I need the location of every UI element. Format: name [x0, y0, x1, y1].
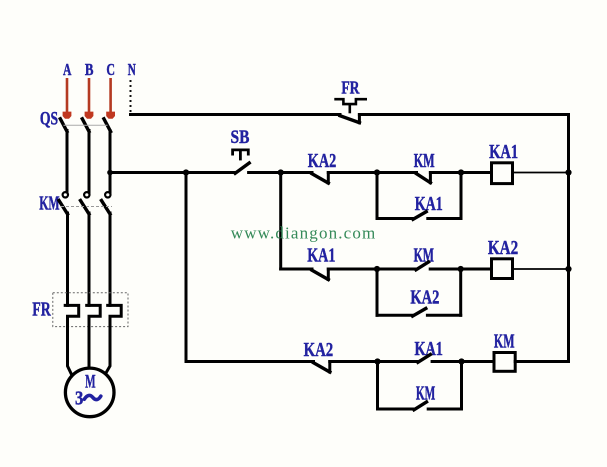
KM main contact B terminal [84, 192, 89, 197]
svg-text:KA1: KA1 [307, 245, 335, 267]
neutral dotted lead [130, 80, 132, 113]
wire coil KM to rail [515, 360, 568, 363]
top rail left of FR [131, 113, 341, 116]
svg-text:FR: FR [341, 78, 360, 98]
svg-text:KA2: KA2 [410, 287, 439, 309]
wire SB to KA2 [249, 171, 312, 174]
switch QS pole A blade [60, 119, 67, 132]
KA2 NC blade (rung1) [312, 174, 328, 183]
node feed tap [107, 170, 113, 176]
KA1 NC tick (rung2) [327, 269, 330, 280]
KM NC tick (rung1) [429, 173, 432, 183]
wire coil KA2 to rail [513, 268, 569, 270]
FR NC contact tick [358, 115, 361, 123]
wire motor lead C [105, 326, 111, 376]
KM main contact C terminal [105, 192, 110, 197]
FR actuator stem [348, 104, 351, 113]
wire rung3 left [186, 360, 314, 363]
wire KM to coil KA1 [430, 171, 491, 174]
KA2 NO blade (branch2) [413, 309, 426, 317]
FR heater C [108, 305, 122, 326]
SB actuator cap [233, 150, 249, 156]
wire motor lead A [68, 326, 74, 378]
branch1 bottom wire right [428, 217, 461, 220]
KM main contact C blade [102, 201, 111, 215]
branch2 bottom wire right [427, 314, 460, 317]
svg-text:SB: SB [231, 127, 250, 148]
FR enclosure dashed box [53, 293, 128, 327]
svg-text:M: M [85, 372, 96, 393]
branch2 right vertical [459, 269, 462, 315]
KA1 NC blade (rung2) [312, 270, 328, 279]
SB NO blade [235, 163, 249, 173]
motor M circle [65, 368, 114, 417]
branch1 right vertical [460, 173, 463, 219]
branch3 bottom wire right [428, 408, 461, 411]
switch QS linkage [64, 124, 108, 126]
motor tilde [84, 395, 101, 399]
KA1 NO blade (rung3) [418, 355, 431, 363]
supply arrow A [63, 78, 72, 119]
KM main contact A terminal [63, 192, 68, 197]
svg-text:KA2: KA2 [304, 339, 334, 361]
wire KA2 to node (rung1) [328, 171, 416, 174]
control feed wire from phase C [110, 171, 235, 174]
FR actuator [334, 99, 367, 104]
wire rung3 right [432, 360, 494, 363]
rung3 left vertical [185, 173, 188, 362]
wire phase C middle [109, 213, 112, 305]
wire phase B upper [88, 131, 91, 193]
wire coil KA1 to rail [513, 172, 569, 174]
KA1 NO blade (branch1) [413, 212, 426, 220]
svg-text:KM: KM [414, 150, 435, 172]
supply arrow B [85, 78, 94, 119]
svg-text:www.diangon.com: www.diangon.com [231, 224, 376, 243]
node rung2 branch left [374, 266, 380, 272]
KM linkage [61, 206, 112, 208]
relay coil KA1 box [492, 163, 513, 184]
wire rung2 left [281, 268, 312, 271]
node rung1 branch right [458, 169, 464, 175]
KM NO blade (rung2) [416, 262, 429, 270]
wire phase B middle [88, 213, 91, 305]
branch1 bottom wire left [377, 217, 413, 220]
KM main contact B blade [81, 201, 90, 215]
KM NO blade (branch3) [414, 402, 427, 410]
FR heater A [65, 305, 79, 326]
node rung3 branch left [374, 358, 380, 364]
rung2 left vertical [279, 173, 282, 270]
KM main contact A blade [59, 201, 68, 215]
KA2 NC blade (rung3) [314, 363, 330, 372]
FR heater B [87, 305, 101, 326]
FR NC contact blade [340, 116, 359, 123]
wire phase C upper [109, 131, 112, 193]
svg-text:C: C [106, 60, 115, 79]
branch2 bottom wire left [377, 314, 413, 317]
branch2 left vertical [376, 269, 379, 315]
right rail [567, 115, 570, 362]
relay coil KM box [494, 353, 515, 372]
wire phase A middle [66, 213, 69, 305]
node rung2 takeoff [278, 169, 284, 175]
wire rung2 middle [328, 268, 416, 271]
node rung3 takeoff [183, 169, 189, 175]
switch QS pole C blade [104, 119, 111, 132]
wire rung3 middle [330, 360, 418, 363]
branch3 bottom wire left [378, 408, 415, 411]
svg-text:N: N [128, 60, 136, 79]
svg-text:A: A [63, 60, 72, 79]
svg-text:KM: KM [39, 193, 59, 215]
supply arrow C [106, 78, 115, 119]
node rung2 branch right [458, 266, 464, 272]
branch3 right vertical [460, 362, 463, 410]
wire rung2 right [430, 268, 491, 271]
svg-text:FR: FR [32, 299, 51, 321]
top rail right of FR [359, 113, 568, 116]
svg-text:KA1: KA1 [489, 141, 518, 163]
KA2 NC tick (rung3) [328, 362, 331, 373]
wire phase A upper [66, 131, 69, 193]
svg-text:B: B [85, 60, 94, 79]
node rail rung2 [565, 266, 571, 272]
branch1 left vertical [376, 173, 379, 219]
svg-text:KM: KM [494, 331, 515, 353]
KA2 NC tick (rung1) [327, 173, 330, 184]
relay coil KA2 box [492, 259, 513, 279]
svg-text:QS: QS [40, 109, 58, 130]
node rung3 branch right [458, 358, 464, 364]
svg-text:KA2: KA2 [308, 150, 337, 172]
svg-text:KA1: KA1 [415, 193, 443, 215]
svg-text:KA2: KA2 [488, 237, 518, 259]
node rail rung1 [565, 169, 571, 175]
node rung1 branch left [374, 169, 380, 175]
switch QS pole B blade [82, 119, 89, 132]
SB actuator stem [239, 150, 242, 161]
KM NC blade (rung1) [417, 174, 431, 183]
wire motor lead B [88, 326, 91, 369]
svg-text:3: 3 [75, 388, 83, 410]
branch3 left vertical [376, 362, 379, 410]
